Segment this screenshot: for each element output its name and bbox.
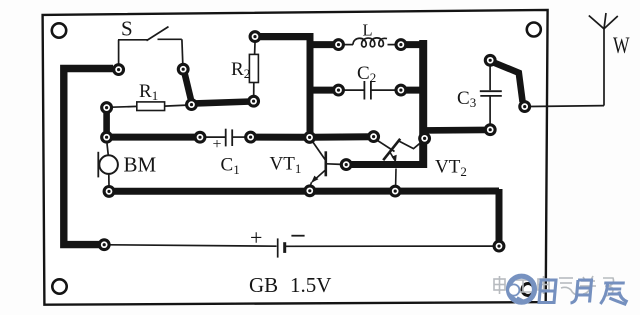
wire: right vertical thick bus <box>419 40 427 168</box>
watermark logo ring <box>508 276 534 302</box>
node mid bus junction <box>305 133 315 143</box>
switch S wiring <box>118 27 183 64</box>
wire: thick run VT1 collector node to right bus <box>350 161 427 168</box>
battery polarity - <box>291 235 304 237</box>
wire: thick run row2 left node to C1 left node <box>110 134 196 141</box>
svg-text:BM: BM <box>124 153 157 177</box>
node VT2 emitter row <box>390 186 400 196</box>
node L right <box>396 40 406 50</box>
battery GB wiring row <box>110 245 277 246</box>
node battery left <box>99 240 109 250</box>
wire: stub C2 right node to right bus <box>406 87 425 94</box>
inductor L <box>344 21 396 48</box>
mounting hole bottom-left <box>52 279 66 293</box>
node C1 right <box>246 132 256 142</box>
node B2 (R1 right / arm pivot) <box>187 100 197 110</box>
node VT2 base <box>369 132 379 142</box>
resistor R2 <box>231 43 258 97</box>
wire: left main thick bus (node A1 to battery left node) <box>64 69 113 245</box>
wire: thick run mid bus junction to VT2 base node <box>313 133 370 141</box>
node C2 right <box>396 85 406 95</box>
wire: thick bent run C3 top node to antenna node <box>492 62 523 102</box>
wire: thick run right bus to C3 bottom node <box>423 127 485 134</box>
transistor VT2 <box>378 139 467 187</box>
wire: bottom-right thick vertical to battery right node <box>496 189 503 242</box>
svg-text:+: + <box>213 136 222 153</box>
node R1 left <box>102 103 112 113</box>
board outline <box>43 10 548 305</box>
capacitor C3 <box>457 67 502 125</box>
watermark blue text (stylized) <box>539 280 629 305</box>
wire: stub mid bus to L left node <box>310 41 333 48</box>
wire: top thick run from R2 top node to mid bus <box>258 33 313 40</box>
svg-text:S: S <box>121 17 133 41</box>
capacitor C2 <box>344 63 395 100</box>
node antenna W <box>520 102 530 112</box>
wire: switch arm thick diagonal (node A2 to node B2) <box>184 72 191 103</box>
wire: stub mid bus to C2 left node <box>310 87 333 94</box>
node VT1 collector <box>341 160 351 170</box>
svg-text:L: L <box>363 21 373 40</box>
wire: stub L right node to right bus <box>406 41 425 48</box>
battery GB plates <box>277 238 279 257</box>
svg-text:1.5V: 1.5V <box>290 273 331 297</box>
node A2 (switch right) <box>178 64 188 74</box>
mounting hole top-right <box>527 23 541 37</box>
node A1 (switch left) <box>114 65 124 75</box>
svg-text:W: W <box>613 33 630 58</box>
node battery right <box>494 241 504 251</box>
node C1 left <box>195 132 205 142</box>
resistor R1 <box>112 81 188 111</box>
node R2 top <box>250 32 260 42</box>
svg-text:GB: GB <box>249 273 278 297</box>
antenna W <box>530 13 630 107</box>
node L left <box>334 40 344 50</box>
node row2 left <box>102 132 112 142</box>
wire: mid vertical thick bus <box>307 33 314 133</box>
microphone BM <box>98 144 156 187</box>
svg-text:+: + <box>250 225 262 250</box>
node right bus <box>420 134 430 144</box>
wire: bottom thick emitter row <box>112 188 499 195</box>
mounting hole top-left <box>52 23 66 37</box>
wire: thick stub R1 left node down to row2 left node <box>103 110 110 134</box>
transistor VT1 <box>270 143 342 187</box>
node C3 top <box>485 55 495 65</box>
wire: thick run node B2 to R2 bottom node <box>192 102 251 104</box>
node C2 left <box>334 85 344 95</box>
node VT1 emitter row <box>305 186 315 196</box>
node C3 bottom <box>485 125 495 135</box>
wire: thick run C1 right node to mid bus junction <box>254 134 307 141</box>
node BM bottom <box>104 187 114 197</box>
watermark gray text <box>494 276 614 296</box>
mounting hole bottom-right <box>522 284 534 296</box>
node R2 bottom <box>249 96 259 106</box>
capacitor C1 (electrolytic, + on left) <box>206 129 247 177</box>
